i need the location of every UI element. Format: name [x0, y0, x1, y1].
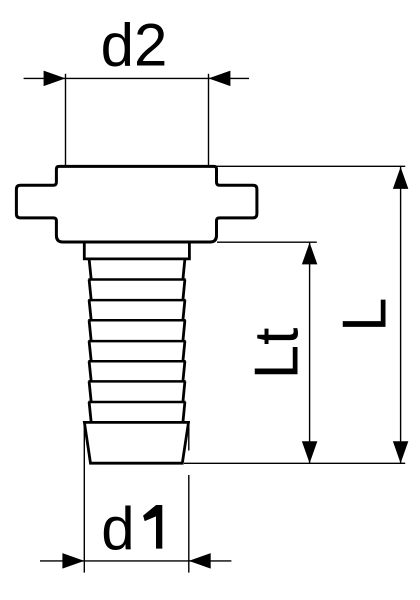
- nut (coupling body) outline: [16, 166, 257, 242]
- d1 extension line right (upper part): [188, 425, 190, 451]
- svg-text:d2: d2: [101, 12, 168, 79]
- d1 extension line left: [83, 424, 85, 573]
- d1 dimension text: digit 1 (Arial-style, no foot serif): [143, 505, 162, 549]
- barb segment 3 sides: [89, 300, 91, 320]
- d2 dimension line: [24, 77, 249, 79]
- barb segment 6 sides: [89, 361, 91, 381]
- Lt bottom arrow: [302, 441, 318, 463]
- Lt top arrow: [302, 243, 318, 265]
- svg-text:Lt: Lt: [243, 328, 312, 380]
- collar: [84, 242, 189, 259]
- barb segment 7 sides: [89, 381, 91, 402]
- L dimension line: [400, 167, 402, 463]
- L / Lt bottom extension line: [184, 462, 405, 464]
- barb ridge 5: [88, 360, 185, 363]
- end flange (hose stop cone): [84, 422, 188, 463]
- barb ridge 2: [88, 299, 185, 302]
- Lt top extension line (nut bottom extended): [217, 241, 317, 243]
- L top arrow: [393, 167, 409, 189]
- d2 arrow left: [44, 71, 66, 87]
- barb segment 1 sides: [89, 259, 91, 280]
- barb segment 2 sides: [89, 280, 91, 301]
- d2 arrow right: [209, 71, 231, 87]
- L top extension line: [217, 165, 406, 167]
- barb segment 5 sides: [89, 341, 91, 361]
- barb ridge 1: [88, 278, 185, 281]
- d1 arrow right: [189, 553, 211, 569]
- barb segment 4 sides: [89, 320, 91, 341]
- L bottom arrow: [393, 441, 409, 463]
- Lt dimension line: [309, 243, 311, 464]
- d2 extension line right: [208, 74, 210, 167]
- d2 extension line left: [65, 74, 67, 167]
- barb ridge 6: [88, 380, 185, 383]
- d1 extension line right (lower part): [188, 475, 190, 573]
- barb ridge 7: [88, 401, 185, 404]
- svg-text:d: d: [101, 495, 134, 562]
- barb ridge 3: [88, 319, 185, 322]
- svg-text:L: L: [331, 298, 400, 332]
- d1 dimension line: [40, 560, 231, 562]
- barb ridge 4: [88, 340, 185, 343]
- d1 arrow left: [62, 553, 84, 569]
- barb segment 8 sides: [89, 402, 91, 422]
